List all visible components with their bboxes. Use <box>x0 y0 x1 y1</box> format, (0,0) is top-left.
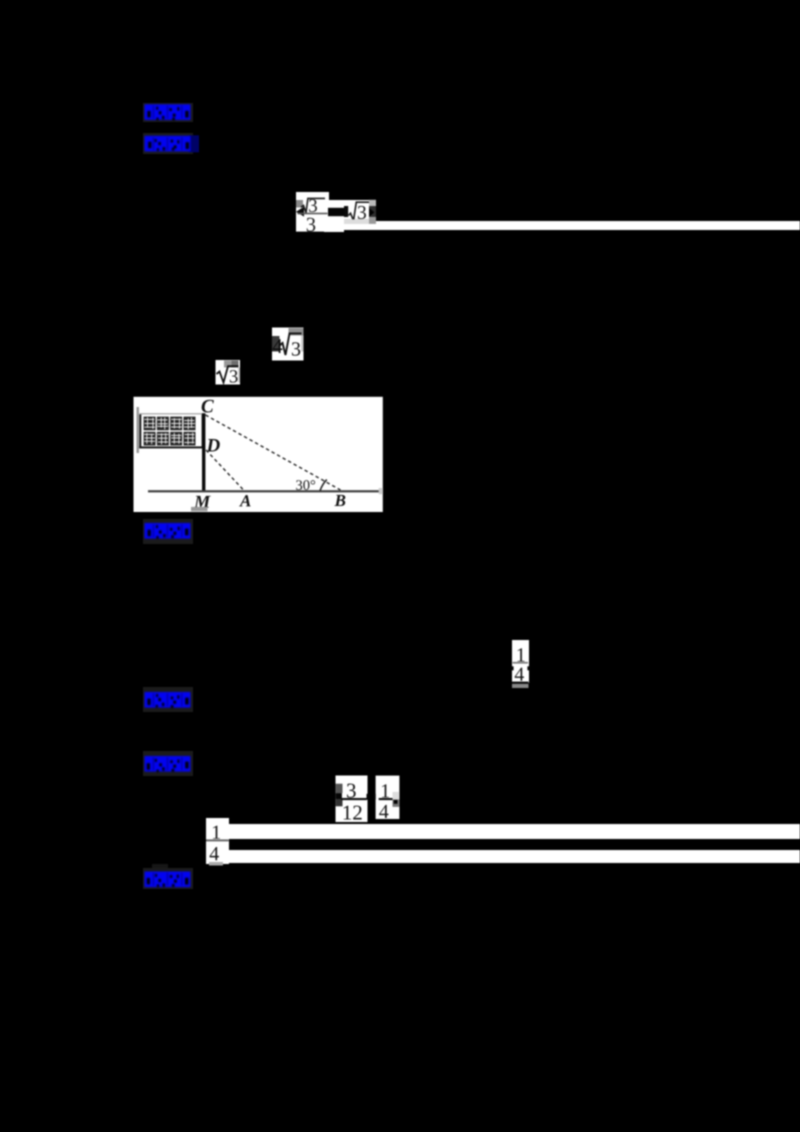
pole <box>202 413 205 491</box>
formula sqrt3-small <box>215 359 241 385</box>
label fenxi-2 <box>143 751 193 776</box>
label kaodian-1 <box>143 103 193 122</box>
white gap between formulas <box>324 200 344 232</box>
white band line1 <box>296 221 800 230</box>
approx bits + formula one-quarter <box>373 775 407 820</box>
formula 4-sqrt3 <box>272 327 304 361</box>
label A <box>239 495 251 506</box>
angle arc <box>320 480 327 491</box>
label B <box>334 495 345 506</box>
formula 3-over-12 <box>333 775 369 823</box>
faint artifact above jieda-2 <box>152 864 168 871</box>
label D <box>206 439 219 451</box>
sign text 2 rows CJK <box>144 417 196 446</box>
30 degrees <box>296 480 315 490</box>
gray sliver handle <box>137 407 140 453</box>
gray bar under M <box>191 507 208 511</box>
ground line <box>148 490 382 492</box>
formula one-quarter standalone <box>509 639 531 690</box>
diagram traffic-sign geometry figure <box>133 396 383 512</box>
white strip lower <box>228 850 800 863</box>
dashed CB <box>206 415 341 490</box>
formula sqrt3-over-3 equals sqrt3 <box>291 190 381 235</box>
handle at ground right <box>379 488 383 494</box>
formula one-quarter before strips <box>205 817 230 867</box>
label jieda-2 <box>143 868 193 889</box>
label C <box>202 400 214 413</box>
label zhuanti-1 <box>143 133 205 155</box>
label jieda-1 <box>143 519 193 544</box>
label M <box>194 496 211 508</box>
sign board <box>139 414 203 449</box>
white strip upper <box>228 824 800 840</box>
dashed DA <box>206 450 244 490</box>
label kaodian-2 <box>143 687 193 712</box>
